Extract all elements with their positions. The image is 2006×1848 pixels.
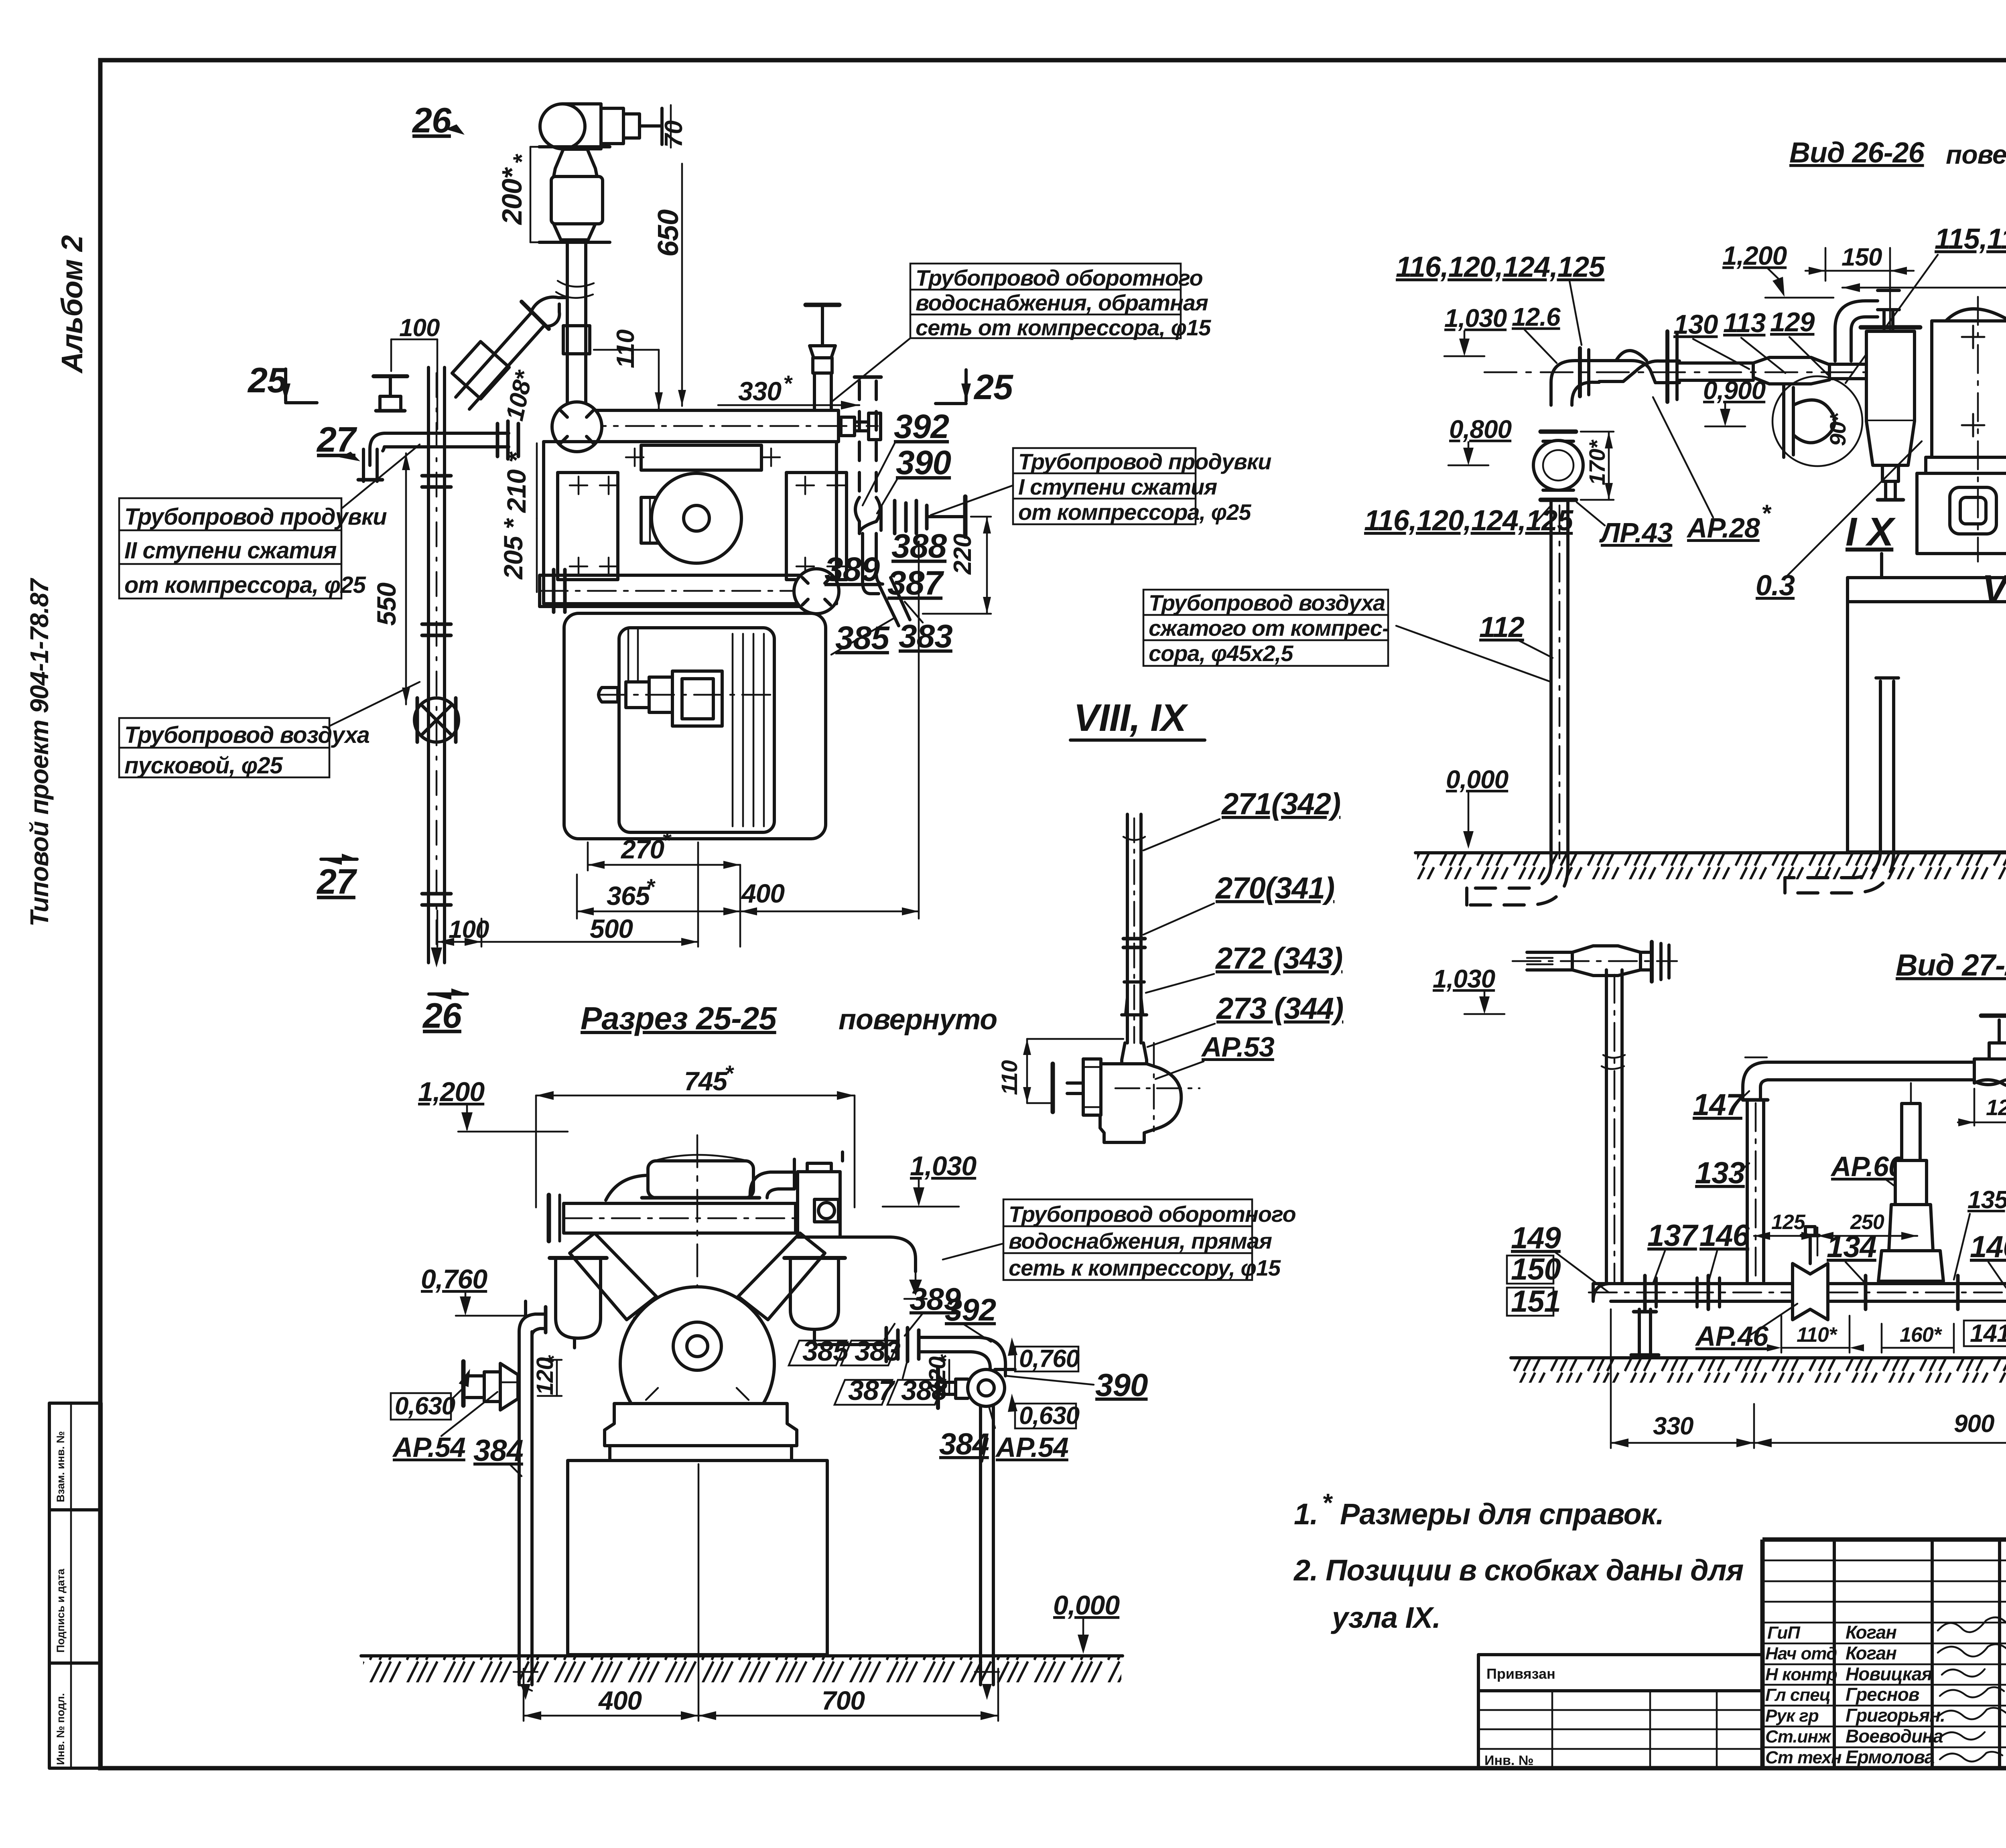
stamp outer top line bbox=[1762, 1538, 2006, 1542]
label AP60 bbox=[1830, 1151, 1910, 1197]
label AP46 bottom left bbox=[1695, 1304, 1797, 1352]
role names column bbox=[1765, 1623, 1842, 1767]
left horizontal pipe bbox=[358, 421, 518, 481]
svg-text:Инв. №: Инв. № bbox=[1484, 1753, 1534, 1768]
machine top cylinder bbox=[578, 410, 881, 442]
svg-text:390: 390 bbox=[896, 444, 951, 481]
machine centerline v26 bbox=[1962, 297, 2006, 562]
standpipe bbox=[1122, 814, 1147, 1043]
svg-text:500: 500 bbox=[590, 914, 633, 943]
svg-text:115,119,124,125: 115,119,124,125 bbox=[1935, 223, 2006, 255]
valve AP53 bbox=[1053, 1043, 1200, 1142]
svg-text:ГиП: ГиП bbox=[1767, 1623, 1801, 1643]
svg-text:Ст.инж: Ст.инж bbox=[1765, 1727, 1832, 1747]
dim 1070* bbox=[1842, 253, 2006, 292]
dim 650 bbox=[652, 164, 686, 406]
air cleaner bbox=[1861, 327, 1920, 500]
underground dashed pipes bbox=[1467, 852, 1894, 905]
right valve cluster 387-392 bbox=[855, 497, 965, 626]
dim 1030 arrow bbox=[883, 1151, 977, 1207]
muffler flange lower bbox=[539, 241, 610, 244]
svg-text:*: * bbox=[783, 371, 793, 396]
svg-text:I X: I X bbox=[1846, 509, 1896, 554]
svg-text:Н контр: Н контр bbox=[1765, 1665, 1837, 1684]
svg-text:Привязан: Привязан bbox=[1486, 1665, 1555, 1682]
svg-text:120: 120 bbox=[1986, 1095, 2006, 1120]
svg-text:АР.54: АР.54 bbox=[392, 1432, 465, 1463]
dim 100 500 bottom bbox=[437, 842, 698, 947]
small valve on left pipe top bbox=[374, 376, 407, 411]
svg-text:Альбом 2: Альбом 2 bbox=[55, 235, 89, 374]
svg-text:*: * bbox=[725, 1061, 734, 1086]
supports bbox=[1631, 1309, 2006, 1355]
svg-text:*: * bbox=[662, 828, 672, 853]
dim 550 vertical bbox=[372, 453, 410, 704]
svg-text:1,030: 1,030 bbox=[910, 1151, 977, 1181]
svg-text:1.: 1. bbox=[1294, 1497, 1318, 1531]
svg-text:900: 900 bbox=[1954, 1410, 1994, 1438]
svg-text:384: 384 bbox=[939, 1427, 989, 1461]
dim 0,000 bbox=[1446, 765, 1509, 849]
svg-text:ЛР.43: ЛР.43 bbox=[1599, 517, 1673, 548]
svg-text:0,800: 0,800 bbox=[1449, 415, 1512, 444]
callout pipe I stage bbox=[931, 448, 1271, 525]
level 0630 left bbox=[391, 1367, 475, 1420]
level 0000 bbox=[1053, 1590, 1120, 1654]
svg-text:205 *: 205 * bbox=[498, 518, 528, 580]
svg-text:112: 112 bbox=[1479, 611, 1525, 643]
dim 150 bbox=[1805, 243, 1914, 357]
svg-text:Новицкая: Новицкая bbox=[1846, 1663, 1932, 1684]
labels 137 146 134 140 144 bbox=[1647, 1219, 2006, 1288]
motor body bbox=[564, 613, 826, 839]
svg-text:160*: 160* bbox=[1900, 1323, 1943, 1347]
names column bbox=[1846, 1622, 1945, 1767]
svg-text:130: 130 bbox=[1673, 309, 1718, 340]
svg-text:пусковой, φ25: пусковой, φ25 bbox=[124, 753, 283, 779]
svg-text:водоснабжения, обратная: водоснабжения, обратная bbox=[916, 290, 1208, 315]
section marker 26 bottom bbox=[422, 988, 467, 1035]
valve AP54 top bbox=[1974, 1016, 2006, 1087]
left margin furniture bbox=[25, 235, 101, 1768]
machine slab and foundation bbox=[1848, 554, 2006, 852]
signatures scribbles bbox=[1938, 1617, 2006, 1761]
compressor machine bbox=[1917, 309, 2006, 554]
heads rail bbox=[549, 1195, 796, 1241]
svg-text:Рук гр: Рук гр bbox=[1765, 1706, 1819, 1726]
svg-text:700: 700 bbox=[822, 1686, 865, 1715]
muffler body bbox=[551, 149, 603, 240]
pipe 112 bbox=[1551, 500, 1568, 866]
svg-text:*: * bbox=[508, 154, 535, 164]
svg-text:АР.54: АР.54 bbox=[995, 1432, 1068, 1463]
dim 170* bbox=[1581, 432, 1614, 500]
svg-text:Воеводина: Воеводина bbox=[1846, 1726, 1943, 1747]
svg-text:330: 330 bbox=[738, 376, 782, 406]
dim 365* 400 bbox=[577, 542, 919, 947]
left elbow and horizontal pipe bbox=[1484, 331, 1870, 405]
ground line and hatch bbox=[361, 1656, 1123, 1682]
diagonal pipe to muffler bbox=[452, 297, 567, 409]
svg-text:270: 270 bbox=[620, 834, 664, 864]
level 0760 left bbox=[421, 1264, 526, 1316]
section marker 26 top bbox=[412, 100, 465, 140]
ball valve left bbox=[1533, 432, 1583, 500]
dim 100 left bbox=[391, 314, 440, 429]
svg-text:от компрессора, φ25: от компрессора, φ25 bbox=[1018, 499, 1251, 525]
right valve AP54 bbox=[938, 1368, 1005, 1685]
plus marks on blocks bbox=[570, 448, 845, 575]
svg-text:повернуто: повернуто bbox=[839, 1004, 997, 1036]
svg-text:389: 389 bbox=[824, 550, 880, 588]
label 116,120,124,125 top bbox=[1396, 251, 1605, 345]
svg-text:200*: 200* bbox=[496, 167, 528, 225]
svg-text:АР.60: АР.60 bbox=[1830, 1151, 1904, 1182]
svg-text:0,760: 0,760 bbox=[421, 1264, 487, 1294]
right dashed vertical pipe bbox=[855, 377, 881, 497]
section 25-25 bbox=[361, 1000, 1296, 1721]
svg-text:*: * bbox=[1322, 1488, 1333, 1517]
V cylinders bbox=[570, 1233, 825, 1320]
svg-text:Коган: Коган bbox=[1846, 1643, 1896, 1663]
dim 200* bbox=[496, 147, 544, 242]
detail labels bbox=[1143, 787, 1343, 1079]
ball valve on machine bbox=[552, 402, 602, 452]
left pipe and valve bbox=[463, 1301, 546, 1685]
dim 70 bbox=[660, 105, 688, 148]
return water pipe right bbox=[840, 1237, 927, 1299]
svg-text:Взам. инв. №: Взам. инв. № bbox=[55, 1431, 67, 1502]
svg-text:Ст техн: Ст техн bbox=[1765, 1748, 1842, 1767]
svg-text:392: 392 bbox=[945, 1292, 996, 1327]
svg-text:330: 330 bbox=[1653, 1412, 1693, 1440]
svg-text:390: 390 bbox=[1095, 1367, 1148, 1403]
svg-text:26: 26 bbox=[422, 996, 462, 1035]
svg-text:113: 113 bbox=[1723, 308, 1766, 338]
left stamp cells bbox=[49, 1403, 101, 1768]
right filter cup bbox=[784, 1258, 845, 1338]
svg-text:140: 140 bbox=[1970, 1230, 2006, 1264]
svg-text:135,136,138,139: 135,136,138,139 bbox=[1967, 1186, 2006, 1214]
svg-text:150: 150 bbox=[1842, 243, 1882, 271]
dim 210* bbox=[501, 443, 537, 518]
svg-text:141: 141 bbox=[1970, 1320, 2006, 1347]
svg-text:1,200: 1,200 bbox=[1722, 241, 1787, 270]
svg-text:I ступени сжатия: I ступени сжатия bbox=[1018, 474, 1217, 499]
svg-text:Трубопровод воздуха: Трубопровод воздуха bbox=[1149, 590, 1385, 615]
callout water supply bbox=[943, 1199, 1296, 1280]
intake arc over air cleaner bbox=[1835, 290, 1899, 361]
svg-text:сжатого от компрес-: сжатого от компрес- bbox=[1149, 615, 1389, 641]
section marker 27 left bbox=[316, 420, 360, 461]
left vertical pipe bbox=[422, 367, 451, 963]
svg-text:Разрез 25-25: Разрез 25-25 bbox=[581, 1000, 777, 1036]
level 0630 right bbox=[1008, 1394, 1080, 1430]
svg-text:Инв. № подл.: Инв. № подл. bbox=[55, 1693, 67, 1765]
dim 0,900 bbox=[1703, 376, 1766, 426]
svg-text:25: 25 bbox=[247, 360, 287, 400]
svg-text:137: 137 bbox=[1647, 1219, 1699, 1253]
plan view bbox=[119, 100, 1271, 1035]
left filter cup bbox=[550, 1258, 607, 1348]
svg-text:151: 151 bbox=[1511, 1284, 1561, 1319]
svg-text:Нач отд: Нач отд bbox=[1765, 1644, 1837, 1663]
labels AP54 384 left bbox=[392, 1392, 523, 1476]
labels 149 150 151 bbox=[1507, 1221, 1609, 1319]
valve circle on left pipe bbox=[414, 698, 459, 742]
svg-text:Подпись и дата: Подпись и дата bbox=[55, 1568, 67, 1653]
dim 1200 level bbox=[418, 1077, 568, 1132]
svg-text:550: 550 bbox=[372, 582, 401, 626]
top right elbow and water pipe bbox=[750, 1152, 843, 1237]
svg-text:0,760: 0,760 bbox=[1019, 1345, 1080, 1373]
callout compressed air bbox=[1143, 590, 1389, 666]
view 26-26 bbox=[1143, 137, 2006, 905]
detail VIII IX bbox=[997, 696, 1343, 1142]
valve bottom dims bbox=[1767, 1316, 2006, 1353]
machine centerline bbox=[696, 1135, 698, 1653]
svg-text:100: 100 bbox=[449, 916, 489, 943]
svg-text:1,200: 1,200 bbox=[418, 1077, 485, 1107]
flywheel bbox=[620, 1287, 774, 1441]
privyazan block bbox=[1478, 1655, 1762, 1768]
svg-text:АР.46: АР.46 bbox=[1695, 1321, 1769, 1352]
svg-text:2. Позиции в скобках даны: 2. Позиции в скобках даны для bbox=[1293, 1554, 1744, 1587]
muffler top elbow assembly bbox=[540, 104, 662, 149]
svg-text:384: 384 bbox=[473, 1434, 523, 1468]
svg-text:116,120,124,125: 116,120,124,125 bbox=[1396, 251, 1605, 283]
detail title bbox=[1070, 696, 1205, 740]
svg-text:90*: 90* bbox=[1825, 412, 1850, 446]
label 116,120 bottom bbox=[1364, 505, 1574, 537]
svg-text:Трубопровод продувки: Трубопровод продувки bbox=[1018, 449, 1271, 474]
svg-text:70: 70 bbox=[660, 121, 688, 148]
labels 385 383 387 388 section bbox=[789, 1324, 947, 1406]
svg-text:134: 134 bbox=[1827, 1230, 1876, 1264]
svg-text:*: * bbox=[1761, 500, 1772, 527]
svg-text:147: 147 bbox=[1693, 1088, 1744, 1122]
ground 26-26 bbox=[1415, 853, 2006, 879]
dim 110 detail bbox=[997, 1039, 1123, 1103]
svg-text:0,000: 0,000 bbox=[1053, 1590, 1120, 1621]
svg-text:272 (343): 272 (343) bbox=[1215, 941, 1342, 976]
svg-text:II ступени сжатия: II ступени сжатия bbox=[124, 538, 337, 564]
svg-text:0,630: 0,630 bbox=[1019, 1402, 1080, 1430]
svg-text:149: 149 bbox=[1511, 1221, 1561, 1255]
dim 205* bbox=[498, 518, 537, 592]
flywheel bbox=[652, 473, 741, 563]
label AP43 bbox=[1577, 502, 1673, 548]
dim 270* bbox=[588, 828, 740, 870]
svg-text:Ермолова: Ермолова bbox=[1846, 1747, 1935, 1767]
ground v27 bbox=[1511, 1358, 2006, 1383]
svg-text:125: 125 bbox=[1771, 1211, 1806, 1234]
svg-text:0,630: 0,630 bbox=[395, 1392, 455, 1420]
svg-text:383: 383 bbox=[899, 618, 952, 655]
svg-text:повернуто: повернуто bbox=[1946, 140, 2006, 169]
section marker 25 right bbox=[936, 367, 1013, 407]
svg-text:Коган: Коган bbox=[1846, 1622, 1896, 1643]
labels 385 383 plan bbox=[831, 602, 952, 656]
svg-text:387: 387 bbox=[887, 564, 944, 602]
svg-text:110: 110 bbox=[612, 330, 640, 368]
right filter outlet piping bbox=[814, 1328, 1015, 1376]
labels 147 133 bbox=[1693, 1088, 1749, 1190]
svg-text:116,120,124,125: 116,120,124,125 bbox=[1364, 505, 1574, 537]
inner foundation pipe bbox=[1876, 678, 1898, 852]
svg-text:400: 400 bbox=[598, 1686, 642, 1715]
svg-text:Греснов: Греснов bbox=[1846, 1684, 1919, 1705]
below ground pipe marks bbox=[514, 1672, 999, 1700]
label 389 392 section bbox=[905, 1281, 996, 1342]
lower cylinder bbox=[540, 569, 839, 614]
svg-text:100: 100 bbox=[399, 314, 440, 342]
svg-text:сеть к компрессору, φ15: сеть к компрессору, φ15 bbox=[1009, 1255, 1281, 1280]
right valve with handwheel bbox=[806, 305, 839, 410]
svg-text:129: 129 bbox=[1770, 307, 1815, 337]
svg-text:1,030: 1,030 bbox=[1444, 304, 1507, 333]
svg-text:узла IX.: узла IX. bbox=[1330, 1601, 1440, 1634]
section marker 25 left bbox=[247, 360, 317, 403]
dim 120* right bbox=[924, 1354, 958, 1395]
main pipe run bbox=[1589, 1276, 2006, 1309]
svg-text:Трубопровод оборотного: Трубопровод оборотного bbox=[916, 265, 1203, 290]
svg-text:сеть от компрессора, φ15: сеть от компрессора, φ15 bbox=[916, 315, 1211, 340]
dim 1,030 bbox=[1433, 964, 1504, 1014]
svg-text:0,900: 0,900 bbox=[1703, 376, 1766, 405]
section marker 27 bottom bbox=[316, 854, 357, 901]
level 0760 right bbox=[1008, 1337, 1080, 1373]
callout return water bbox=[832, 264, 1211, 401]
svg-text:от компрессора, φ25: от компрессора, φ25 bbox=[124, 572, 366, 598]
dims 125 250 bbox=[1754, 1211, 1917, 1256]
svg-text:Трубопровод воздуха: Трубопровод воздуха bbox=[124, 722, 370, 748]
svg-text:383: 383 bbox=[855, 1335, 901, 1367]
svg-text:водоснабжения, прямая: водоснабжения, прямая bbox=[1009, 1228, 1272, 1254]
label 112 bbox=[1396, 611, 1553, 682]
svg-text:АР.28: АР.28 bbox=[1686, 512, 1760, 544]
svg-text:Гл спец: Гл спец bbox=[1765, 1685, 1830, 1705]
label 0.3 bbox=[1756, 441, 1922, 602]
label 135,136,138,139 bbox=[1954, 1186, 2006, 1280]
muffler pipe down bbox=[556, 242, 594, 404]
dim 330* bbox=[718, 371, 859, 410]
foundation bbox=[568, 1461, 827, 1655]
dim 745* bbox=[536, 1061, 855, 1207]
svg-text:110*: 110* bbox=[1797, 1323, 1838, 1347]
svg-text:Вид 27-27: Вид 27-27 bbox=[1896, 948, 2006, 982]
svg-text:273 (344): 273 (344) bbox=[1216, 992, 1343, 1026]
label 115,119,124,125 bbox=[1846, 223, 2006, 383]
upper run with elbows bbox=[1743, 1057, 2006, 1281]
valve AP60 column bbox=[1878, 1083, 1943, 1281]
dim 120* top bbox=[1958, 1089, 2006, 1126]
svg-text:400: 400 bbox=[741, 878, 785, 908]
svg-text:*: * bbox=[646, 874, 656, 899]
top tee assembly bbox=[1513, 942, 1677, 1284]
svg-text:170*: 170* bbox=[1584, 440, 1610, 485]
svg-text:270(341): 270(341) bbox=[1215, 871, 1334, 905]
compressor top tank bbox=[606, 1155, 759, 1200]
svg-text:392: 392 bbox=[894, 408, 949, 445]
label AP28 bbox=[1653, 397, 1772, 544]
svg-text:1,030: 1,030 bbox=[1433, 964, 1495, 993]
svg-text:АР.53: АР.53 bbox=[1201, 1031, 1275, 1063]
svg-text:Размеры для справок.: Размеры для справок. bbox=[1340, 1497, 1664, 1531]
bottom dims 330 900 250 bbox=[1611, 1309, 2006, 1448]
svg-text:27: 27 bbox=[316, 862, 357, 901]
name table grid bbox=[1762, 1560, 2006, 1747]
svg-text:745: 745 bbox=[684, 1066, 728, 1096]
dim 1200 bbox=[1722, 241, 1833, 298]
svg-text:VIII, IX: VIII, IX bbox=[1074, 696, 1188, 739]
title block bbox=[1478, 1460, 2006, 1807]
dim 220 vertical right bbox=[923, 517, 991, 614]
gate valve left AP46 bbox=[1793, 1227, 1828, 1320]
svg-text:Трубопровод продувки: Трубопровод продувки bbox=[124, 504, 387, 530]
svg-text:Типовой проект 904-1-78.87: Типовой проект 904-1-78.87 bbox=[25, 577, 54, 927]
svg-text:0,000: 0,000 bbox=[1446, 765, 1509, 794]
label 390 bbox=[1006, 1367, 1148, 1403]
IX detail circle bbox=[1773, 376, 1862, 466]
svg-text:146: 146 bbox=[1699, 1219, 1750, 1253]
svg-text:150: 150 bbox=[1511, 1252, 1561, 1286]
svg-text:25: 25 bbox=[973, 367, 1013, 407]
dim 120* left bbox=[532, 1355, 566, 1396]
svg-text:Трубопровод оборотного: Трубопровод оборотного bbox=[1009, 1201, 1296, 1227]
notes bbox=[1293, 1488, 1744, 1634]
svg-text:650: 650 bbox=[652, 209, 684, 257]
svg-text:220: 220 bbox=[949, 534, 977, 575]
svg-text:110: 110 bbox=[997, 1060, 1022, 1095]
labels 1,030 and 12.6 bbox=[1444, 302, 1561, 363]
callout pipe air start bbox=[119, 682, 420, 779]
machine frame body bbox=[544, 442, 847, 604]
label VIII bbox=[1982, 429, 2006, 610]
labels 130 113 129 bbox=[1673, 307, 1829, 376]
view 27-27 bbox=[1433, 942, 2006, 1448]
svg-text:271(342): 271(342) bbox=[1221, 787, 1340, 821]
callout pipe II stage bbox=[119, 444, 420, 598]
svg-text:Вид 26-26: Вид 26-26 bbox=[1789, 137, 1925, 169]
labels 384 AP54 right bbox=[939, 1408, 1068, 1463]
svg-text:365: 365 bbox=[607, 881, 650, 911]
svg-text:12.6: 12.6 bbox=[1512, 302, 1561, 331]
svg-text:Григорьян.: Григорьян. bbox=[1846, 1705, 1945, 1726]
dim 0,800 bbox=[1448, 415, 1512, 465]
svg-text:26: 26 bbox=[412, 100, 452, 140]
dim 110 vertical bbox=[594, 330, 663, 409]
pipe bottom arrow bbox=[431, 947, 442, 968]
svg-text:сора, φ45х2,5: сора, φ45х2,5 bbox=[1149, 641, 1293, 666]
bottom dims 400 700 bbox=[524, 1464, 998, 1721]
muffler flange upper bbox=[539, 145, 610, 148]
pedestal bbox=[605, 1404, 797, 1461]
svg-text:210 *: 210 * bbox=[501, 451, 531, 513]
